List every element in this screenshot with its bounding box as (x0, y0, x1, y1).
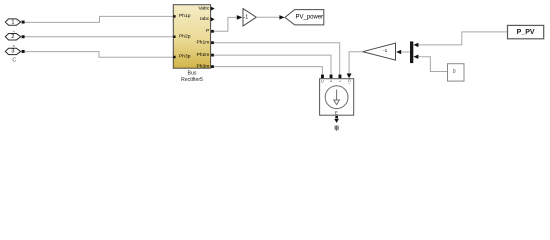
wire mux to G2 (401, 51, 410, 53)
wire port2 to Ph2p (25, 36, 174, 38)
pin Vabc output arrow (211, 6, 215, 10)
pin Ph2p input marker (173, 36, 175, 39)
wire port1 to Ph1p (25, 16, 174, 22)
svg-text:Vabc: Vabc (199, 5, 210, 11)
pin E marker on bottom (335, 116, 338, 118)
current source arrow inside circle (336, 90, 338, 100)
pin Ph3p input marker (173, 56, 175, 59)
gain G2 (-1) left-pointing (363, 43, 396, 60)
gain G1 (-1) (243, 9, 256, 26)
pin Iabc output arrow (211, 17, 215, 21)
svg-text:Ph2m: Ph2m (197, 52, 210, 58)
svg-text:Rectifier5: Rectifier5 (181, 77, 203, 83)
svg-text:≡: ≡ (330, 79, 332, 83)
wire Ph1m to current source pin 3 (214, 43, 340, 75)
mux bar (410, 41, 413, 63)
wire P_PV to mux input 1 (418, 32, 507, 45)
wire constant 0 to mux input 2 (418, 57, 447, 72)
svg-text:0: 0 (453, 69, 456, 75)
pin Ph1p input marker (173, 15, 175, 18)
svg-text:<: < (339, 79, 341, 83)
svg-text:B: B (13, 44, 15, 48)
svg-text:P_PV: P_PV (517, 29, 535, 36)
svg-text:Ph3p: Ph3p (179, 54, 191, 60)
svg-text:~: ~ (348, 82, 350, 86)
current source block (320, 79, 354, 116)
arrowhead into current source pin 4 (347, 74, 352, 79)
wire G2 output to current source pin 4 (349, 52, 363, 74)
pin 2 marker on top (330, 75, 333, 79)
pin 3 marker on top (339, 75, 342, 79)
svg-text:P: P (206, 28, 209, 34)
pin Ph2m port marker (211, 54, 214, 57)
arrowhead into ground (334, 119, 339, 123)
goto tag PV_power (285, 10, 324, 25)
svg-text:Ph3m: Ph3m (197, 63, 210, 69)
wire P to gain G1 (214, 17, 237, 31)
svg-text:Ph1p: Ph1p (179, 13, 191, 19)
svg-text:-1: -1 (383, 48, 388, 54)
arrowhead into G2 input (396, 50, 401, 55)
subsystem Bus Rectifier5 (173, 5, 210, 70)
wire E to ground (336, 118, 338, 119)
constant 0 block (448, 64, 465, 81)
svg-text:2: 2 (11, 34, 14, 40)
inport 2 (B) (5, 34, 24, 48)
inport 1 (A) (5, 19, 24, 33)
current source symbol circle (325, 86, 348, 109)
pin P port marker (211, 30, 214, 33)
arrowhead into G1 (237, 15, 243, 20)
wire G1 to Goto (256, 16, 279, 18)
svg-text:Iabc: Iabc (200, 16, 210, 22)
svg-text:U: U (321, 79, 324, 83)
arrowhead mux input 2 (413, 55, 418, 59)
svg-text:A: A (13, 29, 15, 33)
svg-text:PV_power: PV_power (296, 15, 324, 21)
svg-text:-1: -1 (244, 15, 249, 21)
svg-text:1: 1 (11, 19, 14, 25)
wire Ph2m to current source pin 2 (214, 55, 331, 75)
svg-text:C: C (12, 58, 16, 64)
ground symbol (335, 125, 338, 130)
svg-text:Ph1m: Ph1m (197, 39, 210, 45)
svg-text:Bus: Bus (188, 70, 197, 76)
pin Ph3m port marker (211, 65, 214, 68)
label Bus Rectifier5 (181, 70, 203, 83)
arrowhead mux input 1 (413, 43, 418, 47)
block P_PV (508, 25, 544, 38)
wire Ph3m to current source pin 1 (214, 67, 323, 75)
arrowhead into Goto (279, 15, 284, 19)
svg-text:Ph2p: Ph2p (179, 33, 191, 39)
pin Ph1m port marker (211, 41, 214, 44)
pin 1 marker on top (321, 75, 324, 79)
svg-text:E: E (335, 110, 338, 115)
svg-text:3: 3 (11, 49, 14, 55)
wire port3 to Ph3p (25, 52, 174, 58)
inport 3 (C) (5, 48, 24, 63)
